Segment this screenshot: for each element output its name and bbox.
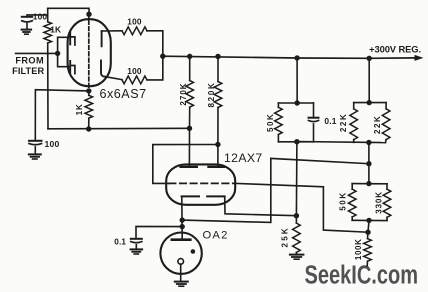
resistor R8 25K — [293, 216, 301, 255]
50K/330K bottom bar — [352, 219, 387, 221]
svg-text:22K: 22K — [373, 115, 382, 134]
V2 right cathode bar — [207, 195, 225, 197]
label 12AX7 — [224, 151, 263, 165]
svg-text:820K: 820K — [207, 82, 216, 108]
resistor R4 270K plate load — [186, 56, 194, 128]
wire C3 to ground — [135, 245, 137, 249]
svg-text:6x6AS7: 6x6AS7 — [100, 87, 147, 101]
label +300V REG. — [369, 43, 421, 54]
svg-text:50K: 50K — [339, 191, 348, 210]
node bus dot at 22K/22K — [367, 56, 372, 61]
wire C1 to ground — [26, 23, 28, 30]
svg-text:1K: 1K — [75, 103, 84, 115]
node V1 top junction dot — [86, 12, 91, 17]
wire V3 cathode to ground — [180, 264, 182, 281]
ground below C1 — [22, 30, 32, 35]
wire V1 upper plate to R2 — [102, 30, 122, 32]
svg-text:50K: 50K — [266, 113, 275, 132]
value label 270K (R4) — [179, 82, 188, 105]
svg-text:SeekIC.com: SeekIC.com — [305, 262, 419, 290]
svg-text:330K: 330K — [375, 191, 384, 214]
wire V2 right cathode to 25K top — [225, 196, 297, 215]
tube V1 6x6AS7 envelope — [68, 19, 111, 86]
value label 50K (R11) — [339, 191, 348, 210]
svg-text:0.1: 0.1 — [324, 116, 336, 126]
tube V3 OA2 envelope — [160, 233, 201, 274]
value label 100 (R3) — [127, 66, 142, 76]
resistor R11 50K — [348, 184, 356, 221]
value label 1K (R1) — [50, 24, 61, 34]
value label 25K (R8) — [281, 226, 290, 247]
wire to upper grid of 6x6AS7 — [58, 37, 71, 53]
bus arrowhead — [415, 55, 424, 61]
node V1 bottom cathode junction dot — [86, 88, 91, 93]
wire network bottom down to 25K node — [295, 142, 298, 216]
ground below C2 — [29, 154, 41, 159]
svg-text:12AX7: 12AX7 — [224, 151, 263, 165]
node OA2 plate dot (to 0.1 cap) — [180, 224, 185, 229]
resistor R5 820K divider — [214, 56, 222, 144]
node bus dot at 820K — [215, 54, 220, 59]
node network top dot — [294, 100, 299, 105]
svg-text:25K: 25K — [281, 226, 290, 247]
node 22K network bottom dot — [366, 140, 371, 145]
V3 plate bar — [172, 238, 191, 241]
wire down to 100K node — [368, 220, 369, 232]
label FROM FILTER — [12, 56, 44, 76]
watermark SeekIC.com — [305, 262, 419, 290]
value label 50K (R7) — [266, 113, 275, 132]
wire V2 right grid to sense divider — [235, 183, 368, 232]
V2 shared grid dashed line — [169, 182, 235, 184]
value label 0.1 (C3) — [114, 238, 126, 247]
wire V2 left cathode down to OA2 plate node — [181, 196, 183, 239]
wire 270K node down to V2 left plate — [188, 128, 190, 167]
wire +300V output bus — [163, 56, 417, 58]
wire cathode node right-up-right to divider mid node — [182, 158, 369, 222]
network 50K parallel 330K: top dot — [366, 181, 371, 186]
ground below OA2 — [175, 282, 188, 287]
value label 100 (R2) — [127, 16, 142, 26]
22K network top bar — [354, 102, 386, 104]
node network bottom dot — [294, 139, 299, 144]
wire output node horizontal to 12AX7 plate junction — [48, 127, 190, 130]
wire 820K node down to V2 right plate — [217, 145, 219, 167]
V3 gas dot — [191, 249, 196, 254]
capacitor C4 0.1 — [309, 103, 319, 142]
svg-text:100: 100 — [33, 12, 48, 22]
svg-text:270K: 270K — [179, 82, 188, 105]
wire R3 right to bus junction — [147, 56, 163, 80]
resistor R9 22K — [350, 103, 358, 143]
network 50K parallel 0.1 screen filter: riser from bus — [296, 58, 298, 103]
capacitor C2 100uF cathode bypass — [29, 141, 42, 145]
value label 820K (R5) — [207, 82, 216, 108]
resistor R12 330K — [383, 184, 391, 221]
V1 lower plate element — [101, 61, 105, 77]
svg-text:1K: 1K — [50, 24, 61, 34]
value label 0.1 (C4) — [324, 116, 336, 126]
svg-text:100K: 100K — [354, 239, 363, 261]
value label 22K (R10) — [373, 115, 382, 134]
resistor R3 100 lower plate — [122, 76, 147, 84]
value label 22K (R9) — [339, 113, 348, 132]
wire FROM FILTER input — [16, 52, 58, 54]
V1 cathode divider dashed line — [88, 14, 90, 91]
node 50K/330K bottom dot — [366, 218, 371, 223]
node left cathode dot (to 22K divider) — [180, 217, 185, 222]
wire to lower grid of 6x6AS7 — [58, 53, 71, 66]
value label 100K (R13) — [354, 239, 363, 261]
node plate junction dot (12AX7 left plate) — [187, 126, 192, 131]
node 820K bottom dot — [215, 142, 220, 147]
value label 1K (R6) — [75, 103, 84, 115]
resistor R6 1K cathode of 6x6AS7 — [85, 91, 93, 129]
wire down to divider mid node — [368, 143, 370, 164]
svg-text:+300V REG.: +300V REG. — [369, 43, 421, 54]
V3 cathode terminal circle — [178, 259, 184, 265]
value label 100 (C2) — [45, 139, 60, 149]
svg-text:OA2: OA2 — [203, 230, 229, 242]
wire OA2 node left to 0.1 cap — [136, 226, 182, 238]
node 25K top dot — [294, 213, 299, 218]
value label 100 (C1) — [33, 12, 48, 22]
node 22K network top dot — [367, 100, 372, 105]
node grid junction dot — [55, 51, 60, 56]
wire network bottom to 22K network bottom — [297, 142, 385, 143]
svg-text:FROM: FROM — [15, 56, 44, 66]
value label 330K (R12) — [375, 191, 384, 214]
svg-text:100: 100 — [45, 139, 60, 149]
wire top-left loop from C1 to 6x6AS7 top — [27, 8, 89, 16]
svg-text:22K: 22K — [339, 113, 348, 132]
label OA2 — [203, 230, 229, 242]
network bottom bar — [278, 141, 313, 143]
resistor R2 100 upper plate — [122, 27, 147, 35]
svg-text:FILTER: FILTER — [12, 66, 44, 76]
V2 right plate bar — [208, 166, 224, 168]
V1 lower grid element — [70, 61, 75, 74]
wire R1 bottom down to output node wire (crosses grid + cathode wires) — [47, 43, 49, 129]
svg-text:100: 100 — [127, 16, 142, 26]
node bus dot at 50K/0.1 — [294, 55, 299, 60]
node bus junction dot (plates) — [160, 54, 165, 59]
node R6 bottom dot on output wire — [86, 126, 91, 131]
network 22K parallel 22K: riser from bus — [368, 58, 370, 102]
wire 820K node to V2 left grid — [153, 145, 218, 184]
svg-text:0.1: 0.1 — [114, 238, 126, 247]
V1 upper plate element — [101, 31, 103, 46]
wire down to 50K/330K top — [368, 164, 370, 184]
label 6x6AS7 — [100, 87, 147, 101]
wire cathode bypass to C2 — [35, 90, 89, 141]
node divider mid dot — [366, 161, 371, 166]
50K/330K top bar — [352, 183, 387, 185]
capacitor C1 100uF input bypass — [22, 17, 32, 22]
wire C2 to ground — [34, 147, 36, 154]
resistor R13 100K — [364, 232, 372, 266]
ground below 25K — [290, 255, 304, 260]
capacitor C3 0.1 — [131, 239, 142, 243]
tube V2 12AX7 envelope — [166, 164, 235, 204]
resistor R10 22K — [382, 103, 390, 143]
resistor R1 1K grid feed — [44, 15, 52, 43]
V1 upper grid element — [70, 32, 75, 45]
svg-text:100: 100 — [127, 66, 142, 76]
network top bar — [278, 102, 313, 104]
ground below C3 — [131, 249, 143, 254]
wire V1 lower plate to R3 — [105, 77, 123, 80]
resistor R7 50K — [275, 103, 283, 142]
node bus dot at 270K — [187, 54, 192, 59]
V2 left plate bar — [181, 166, 197, 168]
V2 left cathode bar — [182, 195, 199, 197]
wire R2 right to bus junction — [147, 31, 163, 56]
node 100K top dot — [365, 230, 370, 235]
